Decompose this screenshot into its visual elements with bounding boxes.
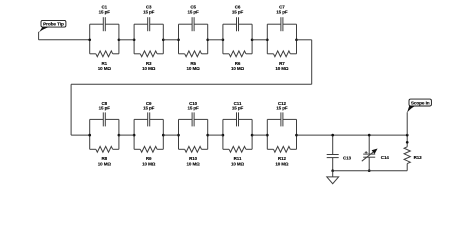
svg-text:10 MΩ: 10 MΩ [231, 161, 245, 166]
wire probe tip to C1/R1 [39, 39, 90, 41]
wire left branch of C11/R11 [222, 119, 224, 149]
node C13 bottom [331, 169, 334, 172]
node left of C6/R6 [222, 38, 225, 41]
node left of C7/R7 [266, 38, 269, 41]
wire left branch of C3/R3 [133, 24, 135, 54]
svg-text:10 MΩ: 10 MΩ [142, 161, 156, 166]
resistor R5 [179, 51, 208, 57]
wire left branch of C6/R6 [222, 24, 224, 54]
capacitor C12 [267, 112, 296, 126]
wire right branch of C11/R11 [251, 119, 253, 149]
resistor R9 [134, 146, 163, 152]
node R13 pin [406, 141, 409, 144]
wire right branch of C3/R3 [162, 24, 164, 54]
svg-text:15 pF: 15 pF [99, 10, 111, 15]
wire from C7/R7 right node [297, 39, 312, 41]
svg-text:R13: R13 [414, 155, 423, 160]
capacitor C1 [90, 17, 119, 31]
svg-text:10 MΩ: 10 MΩ [98, 161, 112, 166]
wire [163, 39, 178, 41]
wire [252, 39, 267, 41]
svg-text:15 pF: 15 pF [187, 105, 199, 110]
svg-text:R8: R8 [102, 156, 108, 161]
capacitor C11 [223, 112, 252, 126]
wire scope in drop [406, 112, 408, 135]
wire right branch of C1/R1 [118, 24, 120, 54]
wire right branch of C9/R9 [162, 119, 164, 149]
svg-text:15 pF: 15 pF [232, 105, 244, 110]
resistor R8 [90, 146, 119, 152]
svg-text:10 MΩ: 10 MΩ [275, 66, 289, 71]
node right of C10/R10 [206, 134, 209, 137]
Scope In callout [407, 99, 431, 113]
node left of C3/R3 [133, 38, 136, 41]
wire right branch of C12/R12 [296, 119, 298, 149]
wire right branch of C7/R7 [296, 24, 298, 54]
wire [208, 39, 223, 41]
wire ground bus [333, 170, 408, 172]
wire right branch of C5/R5 [207, 24, 209, 54]
resistor R1 [90, 51, 119, 57]
capacitor C13 [327, 135, 339, 171]
node C14 bottom [368, 169, 371, 172]
svg-text:C14: C14 [381, 155, 390, 160]
resistor R13 [404, 135, 410, 171]
svg-text:15 pF: 15 pF [232, 10, 244, 15]
node left of C12/R12 [266, 134, 269, 137]
node R13 top [406, 134, 409, 137]
node right of C11/R11 [251, 134, 254, 137]
resistor R11 [223, 146, 252, 152]
svg-text:R10: R10 [189, 156, 198, 161]
capacitor C7 [267, 17, 296, 31]
node left of C11/R11 [222, 134, 225, 137]
wire [163, 134, 178, 136]
svg-text:R11: R11 [234, 156, 242, 161]
wire left branch of C7/R7 [266, 24, 268, 54]
wire into C8/R8 [71, 134, 90, 136]
wire left branch of C12/R12 [266, 119, 268, 149]
wire [119, 39, 134, 41]
resistor R10 [179, 146, 208, 152]
svg-text:15 pF: 15 pF [143, 105, 155, 110]
node left of C1/R1 [88, 38, 91, 41]
svg-text:15 pF: 15 pF [187, 10, 199, 15]
svg-text:15 pF: 15 pF [276, 105, 288, 110]
wire across between rows [71, 83, 312, 85]
svg-text:C13: C13 [343, 156, 352, 161]
node right of C6/R6 [251, 38, 254, 41]
node right of C3/R3 [162, 38, 165, 41]
node C13 top [331, 134, 334, 137]
capacitor C6 [223, 17, 252, 31]
node right of C8/R8 [118, 134, 121, 137]
svg-text:Probe Tip: Probe Tip [43, 22, 64, 27]
resistor R6 [223, 51, 252, 57]
capacitor C5 [179, 17, 208, 31]
svg-text:10 MΩ: 10 MΩ [187, 66, 201, 71]
wire left branch of C9/R9 [133, 119, 135, 149]
wire down from top row [311, 40, 313, 85]
wire left branch of C5/R5 [178, 24, 180, 54]
Probe Tip callout [39, 20, 66, 32]
wire left branch of C1/R1 [89, 24, 91, 54]
node right of C1/R1 [118, 38, 121, 41]
node right of C7/R7 [295, 38, 298, 41]
node left of C5/R5 [177, 38, 180, 41]
wire right branch of C8/R8 [118, 119, 120, 149]
node right of C9/R9 [162, 134, 165, 137]
wire left branch of C10/R10 [178, 119, 180, 149]
resistor R7 [267, 51, 296, 57]
svg-text:Scope In: Scope In [411, 100, 430, 105]
svg-text:R12: R12 [278, 156, 287, 161]
svg-text:15 pF: 15 pF [143, 10, 155, 15]
node left of C10/R10 [177, 134, 180, 137]
node right of C12/R12 [295, 134, 298, 137]
svg-text:10 MΩ: 10 MΩ [275, 161, 289, 166]
svg-text:10 MΩ: 10 MΩ [98, 66, 112, 71]
wire right branch of C6/R6 [251, 24, 253, 54]
capacitor C10 [179, 112, 208, 126]
capacitor C14 (variable) [362, 135, 378, 171]
svg-text:15 pF: 15 pF [99, 105, 111, 110]
svg-text:10 MΩ: 10 MΩ [231, 66, 245, 71]
resistor R12 [267, 146, 296, 152]
svg-text:R9: R9 [146, 156, 152, 161]
wire probe tip drop [38, 32, 40, 40]
ground [327, 171, 339, 184]
svg-text:15 pF: 15 pF [276, 10, 288, 15]
wire right branch of C10/R10 [207, 119, 209, 149]
wire left branch of C8/R8 [89, 119, 91, 149]
svg-text:10 MΩ: 10 MΩ [187, 161, 201, 166]
capacitor C3 [134, 17, 163, 31]
wire [119, 134, 134, 136]
resistor R3 [134, 51, 163, 57]
node left of C9/R9 [133, 134, 136, 137]
node right of C5/R5 [206, 38, 209, 41]
node C14 top [368, 134, 371, 137]
svg-text:10 MΩ: 10 MΩ [142, 66, 156, 71]
node left of C8/R8 [88, 134, 91, 137]
wire down to bottom row [70, 84, 72, 135]
wire [208, 134, 223, 136]
capacitor C8 [90, 112, 119, 126]
wire C12/R12 to output node [297, 134, 408, 136]
capacitor C9 [134, 112, 163, 126]
wire [252, 134, 267, 136]
